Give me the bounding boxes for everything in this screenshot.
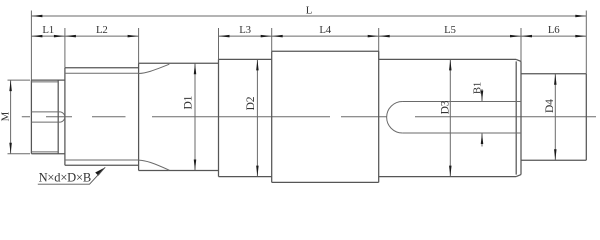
svg-text:L4: L4	[319, 24, 331, 36]
svg-text:L2: L2	[96, 24, 108, 36]
svg-text:N×d×D×B: N×d×D×B	[39, 170, 91, 184]
svg-text:L: L	[306, 5, 312, 17]
svg-text:D2: D2	[245, 96, 257, 110]
svg-text:M: M	[0, 111, 12, 121]
svg-text:L1: L1	[42, 24, 54, 36]
svg-text:D3: D3	[440, 100, 452, 114]
svg-text:L5: L5	[444, 24, 456, 36]
svg-text:L6: L6	[548, 24, 560, 36]
svg-text:D4: D4	[544, 99, 556, 113]
svg-text:D1: D1	[182, 95, 194, 109]
svg-text:B1: B1	[472, 82, 484, 94]
svg-text:L3: L3	[239, 24, 251, 36]
